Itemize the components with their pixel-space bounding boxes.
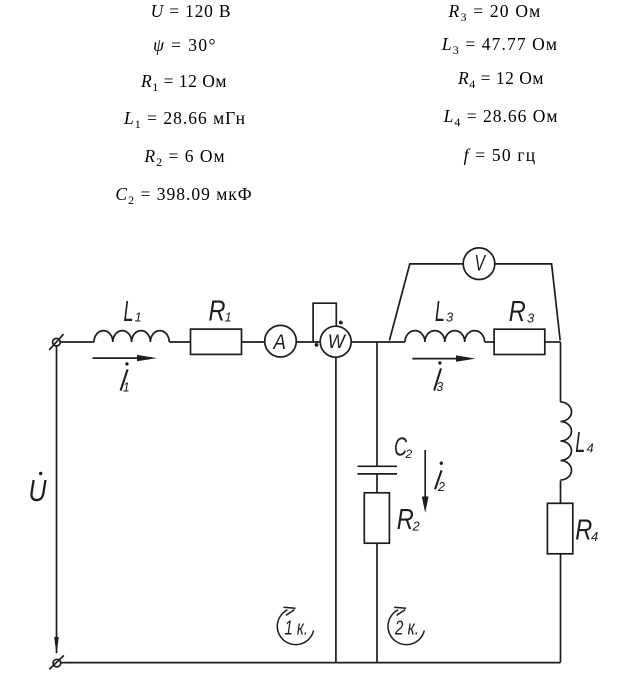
svg-text:U: U [29, 473, 47, 508]
wire: R3 to top-right corner [545, 341, 561, 343]
wire: right branch lower [560, 554, 562, 663]
voltmeter V [463, 248, 495, 280]
wire: top-left terminal to L1 [60, 341, 94, 343]
label R4 [575, 515, 598, 547]
wire: voltmeter left lead with slant down to node [389, 264, 463, 341]
wire: R1 to ammeter [242, 341, 265, 343]
wire: wattmeter to node and L3 [351, 341, 405, 343]
polarity dot (current coil) [315, 343, 319, 347]
svg-text:R: R [209, 295, 226, 327]
parameter text block [151, 1, 232, 21]
wire: R2 down to bottom [376, 543, 378, 662]
label L1 [124, 296, 142, 328]
svg-text:L: L [575, 427, 585, 459]
svg-text:4: 4 [591, 529, 598, 544]
svg-text:1 к.: 1 к. [285, 618, 309, 640]
svg-text:3: 3 [446, 310, 454, 325]
wire: wattmeter lead down [335, 357, 337, 662]
label L4 [575, 427, 594, 459]
label I3 [434, 361, 443, 394]
terminal (bottom left input) [49, 655, 64, 669]
current arrow I1 [93, 355, 158, 361]
source arrow (direction of U) [54, 637, 59, 655]
terminal (top left input) [49, 334, 63, 350]
svg-text:L: L [435, 296, 445, 328]
wire: L3 to R3 [485, 341, 494, 343]
svg-text:1: 1 [123, 380, 130, 394]
svg-text:V: V [475, 251, 487, 276]
polarity dot (voltage coil) [339, 321, 343, 325]
svg-text:3: 3 [527, 311, 535, 326]
inductor L3 [405, 331, 485, 342]
wattmeter W [320, 326, 351, 357]
svg-text:1: 1 [135, 310, 142, 325]
loop arrow contour 2 [388, 607, 424, 644]
svg-text:2: 2 [437, 480, 445, 494]
label C2 [394, 432, 413, 462]
inductor L1 [94, 331, 169, 342]
wire: L4 to R4 [560, 481, 562, 504]
wire: L1 to R1 [169, 341, 190, 343]
wire: right branch upper [560, 342, 562, 402]
label L3 [435, 296, 454, 328]
wire: node down to C2 [376, 342, 378, 466]
wire: ammeter to wattmeter [296, 341, 320, 343]
label U (source voltage) [29, 472, 47, 508]
label I2 [435, 462, 445, 494]
current arrow I3 [412, 355, 476, 361]
label R1 [209, 295, 232, 327]
wire: left branch (source) [56, 346, 58, 653]
svg-text:R: R [575, 515, 592, 547]
svg-text:1: 1 [225, 310, 232, 325]
wire: voltmeter right lead with slant down to corner [495, 264, 561, 341]
svg-text:2 к.: 2 к. [394, 618, 419, 640]
current arrow I2 [422, 450, 429, 513]
svg-text:3: 3 [436, 380, 443, 394]
svg-text:A: A [272, 330, 286, 354]
svg-text:2: 2 [412, 519, 421, 534]
resistor R4 [547, 503, 572, 554]
label I1 [121, 362, 130, 394]
resistor R1 [191, 329, 242, 354]
bottom wire [61, 662, 561, 664]
loop arrow contour 1 [277, 607, 313, 644]
wattmeter voltage-coil box [313, 303, 336, 342]
ammeter A [265, 325, 297, 357]
svg-text:2: 2 [405, 447, 413, 461]
svg-text:W: W [328, 332, 347, 353]
svg-text:R: R [509, 296, 526, 328]
svg-text:L: L [124, 296, 134, 328]
label R3 [509, 296, 535, 328]
resistor R3 [494, 329, 545, 354]
label R2 [397, 504, 421, 536]
wire: C2 to R2 [376, 474, 378, 493]
capacitor C2 [358, 466, 398, 474]
svg-text:4: 4 [587, 441, 594, 456]
resistor R2 [364, 493, 389, 543]
inductor L4 [561, 402, 572, 480]
svg-text:R: R [397, 504, 414, 536]
